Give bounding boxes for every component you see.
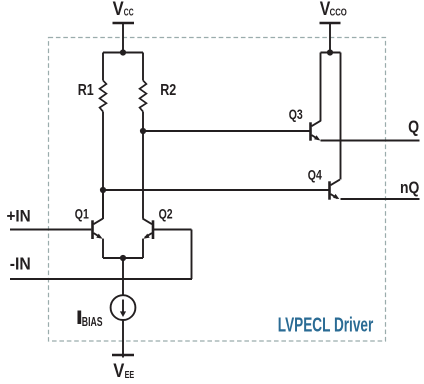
- wire top rail left (R1-R2 tie): [103, 52, 143, 54]
- svg-text:EE: EE: [125, 369, 135, 380]
- resistor R1: [100, 53, 107, 219]
- svg-text:R2: R2: [160, 81, 176, 98]
- svg-text:nQ: nQ: [400, 179, 419, 198]
- svg-text:CC: CC: [124, 6, 134, 18]
- wire emitter join: [103, 257, 143, 259]
- svg-text:V: V: [113, 360, 124, 382]
- svg-text:+IN: +IN: [7, 207, 31, 226]
- power VCCO rail bar: [320, 22, 341, 24]
- transistor Q2: [143, 219, 192, 258]
- power VEE rail bar: [112, 354, 134, 356]
- resistor R2: [140, 53, 147, 219]
- transistor Q3: [311, 53, 321, 141]
- svg-text:V: V: [113, 0, 124, 19]
- wire Q2 base to -IN riser: [191, 230, 193, 280]
- wire +IN input: [10, 229, 91, 231]
- label VCC: [113, 0, 135, 19]
- wire Q4 base (from node A): [103, 189, 329, 191]
- node A (R1 / Q4 base junction): [100, 187, 106, 193]
- svg-text:LVPECL Driver: LVPECL Driver: [278, 314, 374, 336]
- node emitter junction dot: [120, 255, 126, 261]
- svg-text:Q3: Q3: [289, 107, 303, 123]
- wire Q3 base (from node B): [143, 130, 310, 132]
- wire top rail right (Q3-Q4 collectors tie): [321, 52, 341, 54]
- wire VCCO stem: [329, 23, 331, 53]
- svg-text:Q2: Q2: [159, 206, 173, 222]
- wire Q output: [321, 140, 420, 142]
- label VEE: [113, 360, 134, 382]
- node VCC junction dot: [120, 49, 126, 55]
- svg-text:R1: R1: [78, 81, 94, 98]
- transistor Q4: [330, 53, 341, 200]
- node VCCO junction dot: [327, 49, 333, 55]
- wire VCC stem: [122, 23, 124, 53]
- svg-text:Q4: Q4: [308, 167, 322, 183]
- dashed block boundary (LVPECL driver outline): [49, 38, 386, 342]
- transistor Q1: [93, 190, 104, 258]
- power VCC rail bar: [113, 22, 135, 24]
- label IBIAS: [76, 306, 103, 330]
- svg-text:BIAS: BIAS: [82, 315, 103, 329]
- wire nQ output: [341, 198, 420, 200]
- svg-text:Q1: Q1: [75, 206, 89, 222]
- svg-text:CCO: CCO: [330, 7, 347, 18]
- wire current source to VEE: [122, 321, 124, 358]
- label VCCO: [320, 0, 347, 19]
- current source IBIAS: [111, 295, 136, 320]
- svg-text:Q: Q: [408, 118, 419, 137]
- svg-text:-IN: -IN: [10, 254, 31, 274]
- wire -IN input: [10, 278, 192, 280]
- node B (R2 / Q3 base junction): [140, 128, 146, 134]
- wire tail down to current source: [122, 258, 124, 295]
